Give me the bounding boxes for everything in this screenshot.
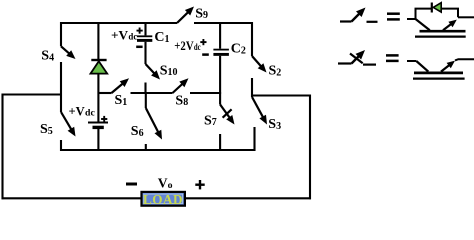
svg-text:S8: S8 — [175, 93, 188, 108]
switch S1 — [112, 83, 124, 93]
switch S7 (normally-closed, with X) — [220, 105, 230, 119]
svg-text:S7: S7 — [204, 113, 217, 128]
wire: C1 to S10 — [144, 42, 146, 64]
svg-text:C2: C2 — [231, 42, 246, 57]
svg-text:dc: dc — [85, 108, 95, 119]
svg-text:S5: S5 — [40, 122, 53, 137]
wire: mid wire S1 to S8 — [131, 92, 173, 94]
output minus sign — [126, 183, 137, 186]
svg-text:S4: S4 — [41, 49, 54, 64]
legend row1: IGBT with antiparallel diode — [407, 18, 416, 20]
svg-text:+V: +V — [69, 104, 86, 119]
legend row2 cross stroke — [350, 54, 363, 64]
switch S6 — [145, 93, 147, 108]
wire: right horizontal to right rail down — [252, 96, 310, 200]
legend row1 top loop right — [441, 9, 458, 18]
wire: left stub to left rail — [3, 93, 62, 95]
wire: S7 bottom stub — [219, 134, 221, 150]
capacitor C1 top plate — [137, 35, 152, 37]
battery +Vdc (bottom) short plate — [93, 126, 104, 129]
wire: top rail right segment to S2 corner — [194, 23, 252, 56]
wire: battery to bottom rail — [97, 129, 99, 150]
switch S5 — [61, 112, 72, 130]
legend row1: ideal switch symbol — [340, 20, 352, 22]
switch S2 — [252, 56, 262, 67]
svg-text:+2V: +2V — [174, 38, 194, 53]
legend row1 IGBT emitter arrow — [443, 24, 452, 31]
LOAD box — [142, 192, 185, 206]
legend row2: switch-with-X symbol — [338, 62, 352, 64]
capacitor C2 top plate — [213, 49, 229, 51]
switch S9 — [177, 12, 189, 23]
svg-text:+V: +V — [111, 28, 129, 43]
svg-text:C1: C1 — [154, 30, 169, 45]
wire: left branch below S4 through mid junction — [60, 62, 62, 112]
wire: bottom output left — [2, 197, 142, 199]
wire: S10 to mid wire junction — [144, 83, 146, 95]
wire: below S2 to right junction — [251, 78, 253, 97]
wire: diode branch down through mid junction to battery — [97, 74, 99, 122]
svg-text:S2: S2 — [269, 64, 282, 79]
diode D1 (green, cathode bar up) — [91, 59, 106, 61]
legend row1: equals sign — [387, 12, 400, 15]
wire: mid stub from diode branch to S1 — [98, 92, 111, 94]
wire: capacitor C1 branch from top rail — [144, 23, 146, 35]
wire: diode branch from top rail — [97, 23, 99, 60]
switch S10 — [146, 64, 155, 74]
legend row2: equals sign — [386, 54, 399, 57]
wire: S6 bottom stub — [145, 144, 147, 150]
switch S8 — [173, 83, 183, 93]
svg-text:S10: S10 — [160, 63, 178, 78]
wire: S8 to C2 branch junction — [190, 92, 221, 94]
wire: top rail left segment with corner down to S4 — [61, 23, 177, 46]
wire: C2 down through mid junction to S7 — [219, 56, 221, 105]
wire: bottom output right — [185, 197, 312, 199]
C1 minus sign — [136, 46, 142, 49]
capacitor C1 bottom plate — [137, 39, 152, 42]
S7 cross stroke — [223, 109, 232, 117]
switch S3 — [252, 97, 263, 118]
svg-text:S6: S6 — [131, 124, 144, 139]
svg-text:LOAD: LOAD — [143, 192, 183, 207]
svg-text:dc: dc — [128, 32, 137, 43]
svg-text:S9: S9 — [195, 6, 208, 21]
wire: capacitor C2 branch from top rail — [219, 23, 221, 49]
battery plus sign — [101, 118, 107, 120]
svg-text:dc: dc — [194, 42, 201, 53]
legend row1 IGBT bars — [420, 30, 466, 33]
legend row2: transistor without diode — [407, 60, 416, 62]
C2 plus sign — [200, 41, 206, 43]
battery +Vdc (bottom) long plate — [88, 122, 108, 124]
svg-text:Vo: Vo — [158, 176, 173, 192]
C1 plus sign — [137, 30, 143, 32]
wire: left rail down — [1, 94, 3, 200]
legend row1 IGBT left leg — [416, 19, 430, 30]
svg-text:S1: S1 — [115, 93, 128, 108]
legend row1 out wire — [458, 16, 474, 18]
switch S4 — [61, 46, 70, 54]
output plus sign — [195, 183, 204, 185]
wire: S5 bottom stub and bottom rail to S3 stub — [61, 127, 255, 150]
legend diode (green, pointing left) — [431, 3, 433, 13]
svg-text:S3: S3 — [268, 117, 281, 132]
capacitor C2 bottom plate — [213, 53, 229, 56]
C2 minus sign — [202, 53, 209, 56]
